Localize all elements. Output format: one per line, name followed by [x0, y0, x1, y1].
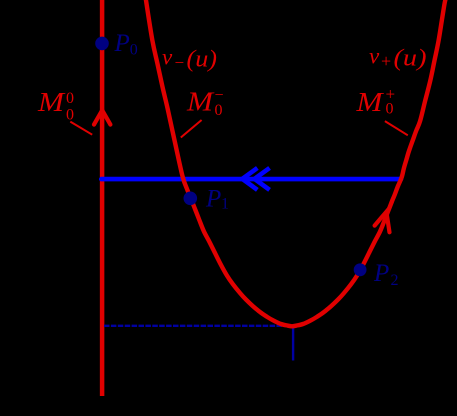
- label P1: [205, 185, 229, 212]
- pointer line from M0- label: [181, 120, 202, 138]
- arrowhead on vertical line (pointing up): [94, 110, 110, 124]
- pointer line from M00 label: [70, 122, 92, 135]
- svg-text:P: P: [114, 30, 130, 57]
- point P0: [95, 37, 109, 51]
- svg-text:0: 0: [386, 101, 394, 118]
- svg-text:−: −: [175, 53, 185, 72]
- svg-text:M: M: [186, 87, 215, 117]
- svg-text:P: P: [373, 260, 389, 287]
- curve: red cubic nullcline v-(u), v+(u): [146, 0, 447, 326]
- label M0-: [186, 87, 224, 119]
- node: double chevron arrow on fast fibre: [242, 169, 267, 188]
- svg-text:0: 0: [215, 102, 223, 119]
- pointer line from M0+ label: [385, 121, 408, 135]
- wire: blue dashed horizontal guide line: [104, 325, 285, 327]
- label M0+: [355, 85, 395, 118]
- point P1: [184, 192, 198, 206]
- svg-text:(u): (u): [394, 46, 427, 72]
- svg-text:M: M: [37, 87, 66, 117]
- svg-text:P: P: [205, 185, 221, 212]
- svg-text:1: 1: [221, 196, 229, 213]
- svg-text:v: v: [162, 45, 173, 70]
- svg-text:2: 2: [391, 272, 399, 289]
- point P2: [354, 263, 367, 276]
- svg-text:+: +: [381, 51, 391, 71]
- wire: blue fast fibre horizontal line: [101, 177, 401, 182]
- svg-text:0: 0: [130, 42, 138, 59]
- svg-text:M: M: [355, 87, 384, 117]
- svg-text:0: 0: [66, 107, 74, 124]
- arrowhead on right branch (pointing up-right along curve): [375, 212, 390, 233]
- svg-text:(u): (u): [187, 47, 218, 73]
- label v+(u): [369, 44, 427, 72]
- label M00 (calligraphic M with sup 0 sub 0): [37, 87, 74, 124]
- svg-text:0: 0: [66, 90, 74, 107]
- svg-text:v: v: [369, 44, 380, 69]
- wire: blue vertical guide tick below minimum: [292, 328, 294, 361]
- label P2: [373, 260, 399, 289]
- curve M00: red vertical critical manifold line: [100, 0, 105, 396]
- label P0: [114, 30, 138, 59]
- label v-(u): [162, 45, 217, 73]
